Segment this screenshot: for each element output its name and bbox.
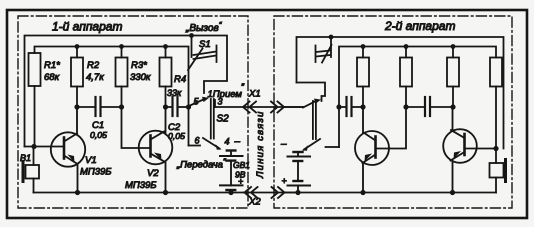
- node K1 (R2/C1/V1 collector): [74, 104, 79, 109]
- capacitor C2': [339, 97, 363, 116]
- dash-dot enclosure box apparatus 2: [274, 16, 512, 208]
- svg-text:В1: В1: [20, 153, 31, 163]
- node base/R1/B1 junction: [31, 144, 36, 149]
- loudspeaker B1: [23, 147, 39, 193]
- pushbutton S1 (Вызов): [188, 36, 217, 71]
- svg-text:S1: S1: [199, 39, 211, 50]
- wire upper rail A2 apparatus 2: [297, 37, 504, 149]
- resistor R2': [400, 47, 412, 108]
- svg-text:0,05: 0,05: [90, 130, 107, 140]
- wire supply bus B apparatus 1: [35, 47, 189, 108]
- svg-text:33к: 33к: [167, 88, 182, 98]
- node R3' top: [451, 44, 456, 49]
- resistor R2: [71, 47, 83, 108]
- pushbutton S1' apparatus 2: [316, 37, 332, 63]
- wire ground rail apparatus 1: [34, 192, 245, 194]
- switch S2' pole 1 apparatus 2: [303, 99, 321, 140]
- svg-text:R3*: R3*: [131, 60, 147, 71]
- capacitor C2: [166, 97, 189, 116]
- switch S2 pole 2 (contacts 6-4): [189, 107, 222, 150]
- loudspeaker B2: [490, 149, 506, 193]
- battery GB2: [288, 152, 311, 193]
- svg-text:330к: 330к: [130, 72, 151, 83]
- svg-text:X2: X2: [248, 197, 261, 208]
- node R1' top: [361, 44, 366, 49]
- node V1 emitter rail: [75, 190, 80, 195]
- wire line X2: [244, 192, 298, 194]
- svg-text:+: +: [282, 176, 287, 186]
- switch S2' pole 2 apparatus 2: [302, 107, 339, 151]
- svg-text:”: ”: [241, 82, 245, 92]
- svg-text:6: 6: [195, 136, 200, 146]
- wire contact 1' bracket: [297, 83, 326, 102]
- svg-text:2-й аппарат: 2-й аппарат: [384, 19, 455, 33]
- svg-text:МП39Б: МП39Б: [80, 167, 112, 178]
- node base/R4'/B2 junction: [493, 146, 498, 151]
- svg-text:1-й аппарат: 1-й аппарат: [52, 20, 122, 34]
- wire line X1: [215, 106, 303, 108]
- capacitor C1': [406, 97, 453, 116]
- node 5' (bus/C2'/pole): [336, 104, 341, 109]
- transistor V2'' (mirrored): [443, 107, 477, 193]
- svg-text:„Передача“: „Передача“: [176, 158, 226, 171]
- wire supply bus B2 apparatus 2: [339, 47, 496, 108]
- svg-text:68к: 68к: [44, 72, 60, 83]
- svg-text:R2: R2: [87, 60, 100, 71]
- node V2'' emitter rail: [450, 190, 455, 195]
- svg-text:МП39Б: МП39Б: [125, 180, 157, 191]
- node V2 emitter rail: [163, 190, 168, 195]
- capacitor C1: [77, 97, 122, 116]
- svg-text:Линия связи: Линия связи: [255, 111, 266, 180]
- junction S1' tap on wire A2: [329, 35, 334, 40]
- svg-text:3: 3: [218, 97, 223, 107]
- wire V1'' base: [377, 107, 407, 149]
- svg-text:4: 4: [225, 137, 230, 147]
- node B1': [403, 104, 408, 109]
- wire line X1 into apparatus 2: [284, 106, 303, 108]
- node K2 (R4/C2/V2 collector): [163, 104, 168, 109]
- svg-text:4,7к: 4,7к: [86, 72, 104, 83]
- wire upper rail A (base node to S1/contact1) apparatus 1: [25, 36, 228, 147]
- svg-text:V2: V2: [147, 168, 159, 179]
- svg-text:GB1: GB1: [233, 160, 250, 170]
- node R3 top: [119, 44, 124, 49]
- transistor V1: [51, 107, 85, 193]
- junction S1 tap on wire A: [189, 33, 194, 38]
- wire ground rail apparatus 2: [285, 192, 497, 194]
- svg-text:R1*: R1*: [44, 60, 60, 71]
- svg-text:–: –: [280, 139, 287, 150]
- dash-dot enclosure box apparatus 1: [18, 16, 248, 208]
- svg-text:–: –: [234, 137, 241, 148]
- node B2 (R3/C1/V2 base): [119, 104, 124, 109]
- svg-text:+: +: [238, 177, 243, 187]
- resistor R3': [447, 47, 459, 108]
- resistor R4': [490, 58, 502, 149]
- switch S2 pole 1 (contacts 5-1-3): [190, 97, 215, 139]
- wire V2'' base: [466, 148, 497, 150]
- node battery GB1 rail: [228, 190, 233, 195]
- resistor R1: [29, 53, 41, 147]
- resistor R1': [357, 47, 369, 108]
- node R4 top: [163, 44, 168, 49]
- node battery GB2 rail: [295, 190, 300, 195]
- svg-text:S2: S2: [217, 114, 230, 125]
- resistor R3: [116, 47, 128, 108]
- connector X2 plug arrows: [245, 187, 285, 198]
- node R2' top: [404, 44, 409, 49]
- node V1'' emitter rail: [360, 190, 365, 195]
- node R2 top: [75, 44, 80, 49]
- node 5 (bus/C2/S2 pole): [186, 104, 191, 109]
- connector X1 plug arrows: [243, 102, 284, 113]
- svg-text:X1: X1: [248, 89, 261, 100]
- battery GB1: [220, 151, 243, 193]
- transistor V2: [139, 107, 173, 193]
- wire V2 base: [122, 107, 151, 148]
- svg-text:R4: R4: [174, 74, 186, 85]
- svg-text:V1: V1: [85, 155, 97, 166]
- svg-text:„Вызов“: „Вызов“: [185, 21, 222, 34]
- node K1': [450, 104, 455, 109]
- node K2': [360, 104, 365, 109]
- transistor V1'' (mirrored): [355, 107, 389, 193]
- wire V1 base: [25, 146, 64, 148]
- svg-text:1Прием: 1Прием: [208, 89, 243, 100]
- resistor R4: [160, 47, 172, 108]
